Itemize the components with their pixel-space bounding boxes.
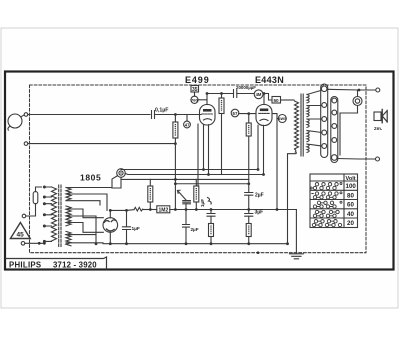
bias bus wire with filter — [110, 207, 296, 211]
svg-text:1µF: 1µF — [200, 199, 205, 207]
svg-text:E499: E499 — [185, 75, 210, 85]
transformer core — [59, 185, 61, 247]
svg-text:760: 760 — [191, 98, 198, 103]
svg-text:35: 35 — [192, 87, 198, 93]
output transformer primary bottom hook — [288, 149, 297, 244]
outer frame — [5, 72, 394, 270]
secondary lead D anode1 — [66, 209, 103, 218]
secondary lead C — [66, 201, 100, 205]
svg-text:100: 100 — [346, 183, 357, 190]
warning triangle 45 — [10, 223, 30, 239]
tube E443N envelope — [256, 94, 272, 126]
svg-text:2µF: 2µF — [255, 193, 264, 199]
svg-text:20000µµF: 20000µµF — [236, 85, 256, 90]
potentiometer arrow — [178, 190, 187, 200]
svg-text:E443N: E443N — [255, 75, 284, 85]
wire 4M to box 50 — [263, 94, 272, 101]
tube E443N legs — [257, 125, 259, 169]
resistor box below 1uF — [209, 224, 214, 244]
svg-text:80: 80 — [347, 192, 354, 199]
svg-text:45: 45 — [17, 232, 25, 239]
node grid wire junction — [174, 113, 177, 116]
svg-text:50: 50 — [274, 98, 280, 103]
resistor grid E443N vertical — [219, 94, 224, 175]
svg-text:0,1µF: 0,1µF — [155, 108, 168, 114]
secondary lead G — [66, 234, 95, 236]
tube E499 envelope — [200, 94, 216, 126]
wire input top to grid cap — [28, 114, 150, 116]
headphone jack — [340, 90, 362, 155]
fuse — [26, 187, 42, 216]
secondary lead B — [66, 194, 107, 210]
pilot lamp — [117, 169, 126, 178]
wire mains lower to tap — [25, 241, 45, 243]
wire strip2 to output terminal bottom — [337, 158, 376, 161]
top anode wire E499 — [207, 93, 234, 95]
transformer secondary bottom — [66, 231, 71, 245]
transformer secondary mid — [66, 206, 71, 226]
ground symbol — [290, 210, 304, 259]
table row5 link pattern — [312, 220, 341, 227]
PHILIPS label box — [6, 257, 107, 269]
svg-text:60: 60 — [347, 202, 354, 209]
svg-text:1805: 1805 — [80, 173, 101, 183]
capacitor 1uF reservoir — [123, 210, 131, 243]
node dashed border dot — [257, 251, 260, 254]
wire strip1 to output terminal — [327, 88, 376, 91]
node wire2 junction — [174, 142, 177, 145]
resistor vertical screen — [148, 179, 153, 209]
speaker — [374, 110, 387, 123]
output terminal bottom — [376, 157, 380, 161]
input terminal bottom — [24, 142, 28, 146]
tube E499 legs — [197, 124, 199, 186]
table row3 link pattern — [313, 201, 342, 208]
svg-text:4W5: 4W5 — [278, 117, 286, 121]
cathode line E443N with resistor box — [246, 114, 251, 193]
heater bus line 1 — [121, 169, 258, 171]
svg-text:PHILIPS: PHILIPS — [9, 260, 41, 269]
wire bias horizontal — [175, 183, 248, 185]
svg-text:4M: 4M — [256, 92, 262, 97]
svg-text:20: 20 — [347, 220, 354, 227]
flex squiggle — [208, 198, 212, 205]
svg-text:Volt: Volt — [346, 176, 356, 182]
svg-text:47: 47 — [185, 122, 190, 127]
coupling capacitor 20000uuF — [234, 90, 255, 98]
voltage table frame — [310, 174, 358, 228]
box 35 — [191, 86, 199, 97]
trimmer capacitor plates — [183, 201, 191, 210]
wire E443N grid right to dropper — [272, 114, 277, 210]
output transformer secondary bumps — [307, 95, 309, 153]
capacitor 2uF cathode — [245, 193, 253, 210]
capacitor 1uF stack — [207, 210, 215, 224]
rectifier 1805 tube — [103, 210, 118, 243]
transformer primary winding — [52, 187, 57, 241]
resistor 1M2 box — [157, 206, 170, 213]
circle meter 4M — [254, 90, 263, 99]
tap strip 2 — [331, 97, 338, 163]
table row4 link pattern — [313, 210, 339, 217]
secondary lead E center tap — [66, 216, 96, 244]
svg-text:3712 - 3920: 3712 - 3920 — [53, 260, 97, 269]
wire input bottom — [28, 143, 176, 145]
svg-text:1µF: 1µF — [132, 226, 140, 232]
resistor cathode E499 vertical — [194, 179, 199, 209]
capacitor 3uF — [245, 210, 253, 224]
mains terminal lower — [21, 242, 25, 246]
chassis dashed border — [30, 85, 367, 253]
svg-text:1M2: 1M2 — [159, 208, 169, 214]
svg-text:40: 40 — [347, 211, 354, 218]
svg-text:3µF: 3µF — [255, 210, 264, 216]
lamp feed wire — [112, 177, 121, 188]
node bias junctions — [125, 209, 128, 212]
circle meter 57 — [231, 109, 256, 117]
table row1 link pattern — [310, 183, 342, 190]
mains terminal upper — [22, 214, 26, 218]
table row2 link pattern — [312, 192, 342, 199]
ground bus — [103, 243, 288, 245]
transformer primary taps — [43, 186, 52, 243]
tap strip 1 — [307, 84, 328, 158]
capacitor 2uF bias — [183, 210, 190, 244]
box 50 — [272, 97, 294, 104]
svg-text:57: 57 — [233, 111, 238, 116]
circle meter 47 — [184, 115, 191, 128]
transformer secondary HV top — [66, 188, 71, 201]
secondary lead A to lamp — [66, 176, 117, 188]
resistor box cathode bottom — [246, 224, 251, 244]
output transformer primary winding — [295, 101, 299, 149]
capacitor 0,1uF — [152, 111, 202, 119]
circle meter 760 — [191, 96, 207, 103]
output transformer core — [301, 94, 303, 156]
svg-text:2m.: 2m. — [374, 126, 382, 132]
secondary lead F anode2 — [66, 223, 103, 233]
pickup/antenna symbol — [8, 114, 24, 130]
resistor value squiggle marks — [150, 100, 248, 235]
output terminal top — [376, 88, 380, 92]
resistor grid leak vertical — [173, 115, 178, 210]
svg-text:2µF: 2µF — [191, 227, 199, 232]
wire AVC horizontal — [121, 178, 249, 180]
secondary lead H — [66, 242, 103, 244]
circle meter 4W5 — [277, 115, 286, 123]
input terminal top — [24, 113, 28, 117]
heater bus line 2 — [125, 174, 263, 175]
